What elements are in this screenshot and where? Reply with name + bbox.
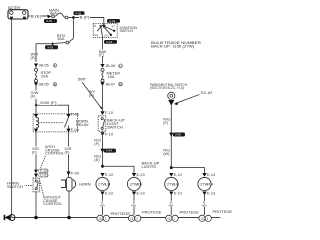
- ignition switch U1: [93, 23, 117, 37]
- fuse STOP 20A: [35, 67, 38, 83]
- svg-text:G: G: [168, 216, 171, 221]
- svg-text:E-13: E-13: [137, 191, 145, 196]
- svg-text:E-13: E-13: [207, 172, 215, 177]
- svg-text:15A: 15A: [108, 74, 115, 79]
- ground symbol left: [4, 215, 15, 221]
- svg-text:E-12: E-12: [174, 191, 182, 196]
- leader horn switch: [26, 185, 33, 187]
- svg-text:(F): (F): [31, 93, 37, 98]
- ground eyelets bulb 2: [128, 215, 141, 221]
- svg-text:(F): (F): [32, 149, 38, 154]
- svg-text:F-10: F-10: [105, 110, 114, 115]
- leader without cruise: [40, 180, 44, 196]
- wire to left column: [53, 43, 67, 44]
- svg-text:(W): (W): [131, 204, 136, 208]
- wire relay coil to horn switch: [35, 132, 37, 178]
- wire G/W down to horn relay: [35, 83, 37, 106]
- svg-text:LH: LH: [174, 181, 179, 186]
- wire R/G down from P/N switch: [170, 104, 172, 168]
- svg-text:(SECTION B-2C, H-5): (SECTION B-2C, H-5): [150, 85, 185, 90]
- horn H1: [61, 178, 76, 191]
- wire horn switch to ground: [35, 192, 37, 218]
- svg-text:F-10: F-10: [105, 131, 114, 136]
- terminal F-10 bottom: [100, 132, 104, 136]
- ground eyelets bulb 4: [199, 215, 212, 221]
- svg-text:(F): (F): [94, 141, 100, 146]
- wire ignition to meter fuse: [102, 38, 104, 64]
- node junction main: [72, 16, 75, 19]
- svg-text:IG2: IG2: [105, 34, 110, 38]
- svg-text:(F): (F): [31, 55, 37, 60]
- svg-text:RH: RH: [207, 181, 213, 186]
- ground eyelets bulb 3: [166, 215, 179, 221]
- svg-text:E-13: E-13: [207, 191, 215, 196]
- svg-text:F-09: F-09: [71, 171, 79, 176]
- back-up bulb 3 (LH): [165, 172, 182, 215]
- connector label C-01 top (black): [107, 19, 120, 23]
- wire to junction: [68, 17, 74, 19]
- terminal JB-05 top: [34, 64, 38, 68]
- connector X-06 (black): [169, 133, 173, 137]
- fuse METER 15A: [101, 68, 104, 82]
- wire relay contact to horn: [68, 132, 70, 177]
- svg-text:G/W (F): G/W (F): [40, 100, 57, 105]
- svg-text:20A: 20A: [41, 73, 48, 78]
- terminal F-09: [66, 172, 70, 176]
- svg-text:CONTROL: CONTROL: [43, 201, 63, 206]
- horn relay K1: [33, 114, 77, 132]
- svg-text:BACK-UP: 1156 (27W): BACK-UP: 1156 (27W): [151, 44, 195, 49]
- svg-text:SWITCH: SWITCH: [120, 28, 134, 33]
- horn relay branch wire G/W: [36, 105, 69, 114]
- svg-text:RH: RH: [137, 181, 143, 186]
- svg-text:E-13: E-13: [137, 172, 145, 177]
- node ground horn switch: [34, 216, 38, 220]
- wire horn to ground: [68, 191, 70, 218]
- back-up light switch S1: [98, 116, 106, 131]
- svg-text:G: G: [130, 216, 133, 221]
- svg-text:E-12: E-12: [174, 172, 182, 177]
- svg-text:LIGHTS: LIGHTS: [142, 164, 157, 169]
- terminal JB-05 bottom: [34, 83, 38, 87]
- svg-text:(F): (F): [163, 120, 169, 125]
- svg-text:X-04: X-04: [106, 149, 112, 153]
- wire B (F) to ignition switch: [74, 18, 104, 26]
- svg-text:B: B: [54, 82, 57, 87]
- svg-text:LH: LH: [105, 181, 110, 186]
- label G/R (F) right: [64, 147, 73, 155]
- svg-text:F-08: F-08: [71, 112, 79, 117]
- svg-text:B (E): B (E): [31, 13, 43, 18]
- terminal bullet: [47, 15, 51, 19]
- svg-text:SWITCH: SWITCH: [107, 125, 123, 130]
- back-up bulb 2 (RH): [127, 172, 144, 215]
- horn switch S3: [33, 178, 40, 192]
- label G/W (F): [40, 100, 58, 105]
- fusible link MAIN 80A: [52, 13, 68, 19]
- svg-text:5MT: 5MT: [78, 77, 87, 82]
- label B (E): [30, 13, 42, 18]
- svg-text:X-01: X-01: [46, 19, 52, 23]
- svg-text:I: I: [174, 216, 175, 221]
- back-up bulb 1 (LH): [96, 172, 113, 215]
- svg-text:I: I: [105, 216, 106, 221]
- label B (F): [79, 15, 90, 19]
- svg-text:E: E: [54, 63, 57, 68]
- svg-text:ST: ST: [112, 24, 116, 28]
- svg-text:SWITCH: SWITCH: [7, 184, 23, 189]
- svg-text:B: B: [94, 24, 96, 28]
- svg-text:G: G: [99, 216, 102, 221]
- svg-text:I: I: [137, 216, 138, 221]
- node split AT: [170, 166, 173, 169]
- svg-text:C-01: C-01: [109, 19, 116, 23]
- svg-text:B: B: [119, 82, 122, 87]
- terminal JB-06: [100, 64, 104, 68]
- svg-text:EC-AT: EC-AT: [201, 90, 213, 95]
- svg-text:(W): (W): [100, 204, 105, 208]
- svg-text:F-08: F-08: [71, 127, 79, 132]
- svg-text:JB-05: JB-05: [39, 82, 49, 87]
- fusible link BTN 60A: [73, 18, 75, 38]
- connector label X-01 (black): [44, 19, 57, 23]
- connector label X-03 (black): [45, 45, 58, 49]
- svg-text:G: G: [201, 216, 204, 221]
- svg-text:X-06: X-06: [175, 133, 181, 137]
- svg-text:JB-05: JB-05: [39, 63, 49, 68]
- svg-text:JB-06: JB-06: [105, 63, 115, 68]
- svg-text:(W): (W): [169, 204, 174, 208]
- svg-text:JB-07: JB-07: [105, 81, 115, 86]
- label G/R (F) left: [32, 147, 41, 155]
- svg-text:RELAY: RELAY: [76, 122, 89, 127]
- svg-text:60A: 60A: [58, 36, 65, 41]
- svg-text:B (F): B (F): [80, 15, 91, 20]
- svg-text:C-01: C-01: [40, 172, 48, 177]
- svg-text:(F): (F): [99, 52, 105, 57]
- svg-text:X-03: X-03: [47, 45, 53, 49]
- terminal F-10 top: [100, 111, 104, 115]
- wire to fourth bulb: [171, 168, 204, 174]
- wire B/Y to back-up light switch: [102, 84, 104, 111]
- svg-text:PROTEGE: PROTEGE: [213, 209, 233, 214]
- svg-text:80A: 80A: [50, 11, 57, 16]
- ground bus: [12, 217, 220, 219]
- park/neutral switch S2: [168, 92, 175, 105]
- wire battery negative down to ground bus: [11, 19, 13, 218]
- leader with cruise: [41, 156, 46, 168]
- back-up bulb 4 (RH): [198, 172, 215, 215]
- connector C-01: [34, 174, 38, 177]
- wire to second bulb: [103, 166, 135, 174]
- label G/W (F): [30, 91, 38, 100]
- svg-text:HORN: HORN: [79, 181, 91, 186]
- ground eyelets bulb 1: [97, 215, 110, 221]
- svg-text:(E): (E): [94, 157, 100, 162]
- svg-text:E-12: E-12: [105, 191, 113, 196]
- svg-text:I: I: [207, 216, 208, 221]
- label B/W (F): [99, 50, 107, 57]
- wire battery positive to main link: [28, 15, 49, 17]
- connector label C-01 bottom (black): [104, 40, 117, 44]
- svg-text:D: D: [119, 63, 122, 68]
- connector label X-02 (black): [74, 11, 85, 15]
- connector F-01: [34, 170, 38, 173]
- svg-text:C-01: C-01: [106, 40, 113, 44]
- connector X-04 (black): [100, 149, 104, 153]
- svg-text:CONTROL: CONTROL: [45, 151, 65, 156]
- svg-text:IG1: IG1: [94, 33, 99, 37]
- svg-text:(F): (F): [65, 149, 71, 154]
- svg-text:E-12: E-12: [105, 172, 113, 177]
- svg-text:PROTEGE: PROTEGE: [142, 209, 162, 214]
- node ground horn: [67, 216, 71, 220]
- svg-text:PROTEGE: PROTEGE: [180, 209, 200, 214]
- terminal JB-07: [100, 82, 104, 86]
- svg-text:(W): (W): [163, 151, 170, 156]
- wire R/G down: [102, 131, 104, 166]
- node split MT: [101, 165, 104, 168]
- battery B1: [8, 10, 28, 19]
- svg-text:(W): (W): [202, 204, 207, 208]
- svg-text:PROTEGE: PROTEGE: [111, 211, 131, 216]
